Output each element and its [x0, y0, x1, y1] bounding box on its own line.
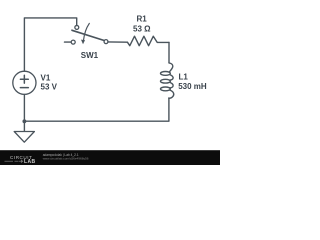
- V1 plus sign: [20, 75, 28, 83]
- wire from V1 top to switch top contact: [24, 18, 76, 71]
- svg-text:V1: V1: [41, 74, 51, 83]
- svg-text:530 mH: 530 mH: [178, 82, 207, 91]
- switch SW1 blade: [72, 30, 104, 40]
- watermark bar: [0, 150, 220, 165]
- svg-text:LAB: LAB: [24, 159, 35, 165]
- svg-text:www.circuitlab.com/c56e4968y56: www.circuitlab.com/c56e4968y56: [43, 156, 89, 160]
- switch SW1 top contact: [75, 25, 79, 29]
- switch SW1 arrow head: [81, 40, 85, 45]
- switch SW1 common contact: [104, 40, 108, 44]
- wire from V1 bottom to ground: [23, 94, 25, 131]
- svg-text:53 V: 53 V: [41, 83, 58, 92]
- svg-text:53 Ω: 53 Ω: [133, 24, 151, 33]
- switch SW1 left contact: [71, 40, 75, 44]
- wire from resistor to inductor top: [168, 42, 170, 63]
- CircuitLab logo: arrow glyph: [19, 160, 23, 163]
- svg-text:SW1: SW1: [81, 51, 99, 60]
- V1 minus sign: [20, 87, 28, 89]
- ground: [14, 132, 34, 143]
- wire from switch common to resistor R1: [108, 41, 128, 43]
- switch SW1 stub wire (open throw): [65, 41, 71, 43]
- svg-text:L1: L1: [179, 73, 189, 82]
- resistor R1 zigzag: [127, 36, 169, 46]
- CircuitLab logo: lines and arrow: [5, 160, 19, 162]
- junction node: [22, 119, 26, 123]
- switch SW1 actuator arrow: [84, 23, 90, 39]
- inductor L1 coil: [169, 63, 173, 72]
- voltage source V1: [13, 71, 36, 94]
- bottom wire from junction to inductor bottom: [24, 98, 169, 121]
- svg-text:R1: R1: [137, 15, 148, 24]
